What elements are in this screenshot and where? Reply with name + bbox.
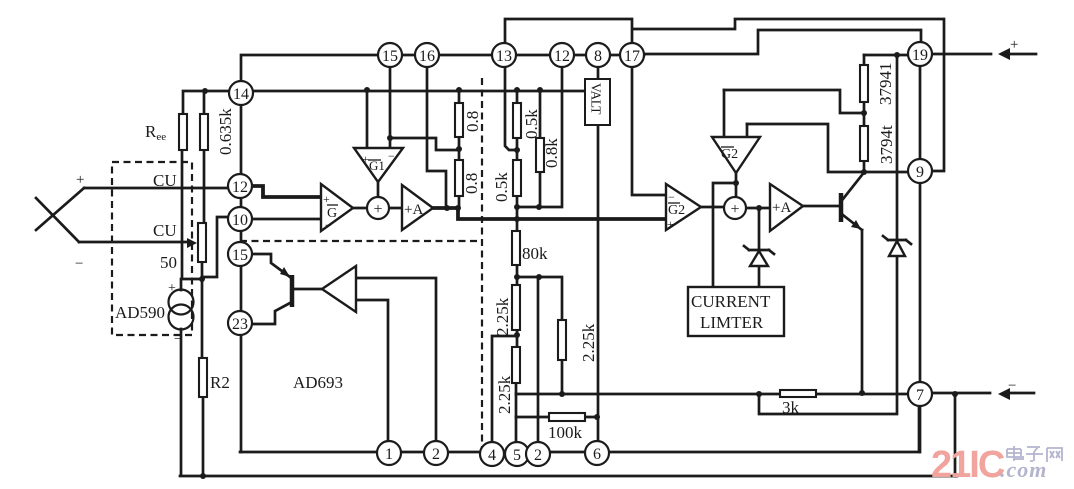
svg-text:12: 12 bbox=[232, 179, 248, 196]
svg-text:17: 17 bbox=[624, 48, 640, 65]
svg-text:−: − bbox=[668, 190, 675, 204]
svg-text:G2: G2 bbox=[721, 147, 738, 162]
svg-text:+: + bbox=[323, 192, 330, 206]
svg-text:9: 9 bbox=[916, 164, 924, 181]
svg-text:−: − bbox=[174, 332, 182, 347]
svg-text:+: + bbox=[362, 152, 369, 166]
svg-text:2.25k: 2.25k bbox=[493, 297, 512, 336]
svg-text:CU: CU bbox=[153, 171, 177, 190]
svg-text:−: − bbox=[75, 256, 83, 272]
svg-text:+A: +A bbox=[772, 200, 791, 216]
svg-text:0.8: 0.8 bbox=[462, 173, 481, 194]
svg-text:3794t: 3794t bbox=[877, 125, 896, 164]
svg-text:16: 16 bbox=[419, 48, 435, 65]
svg-text:+: + bbox=[1010, 37, 1018, 53]
svg-text:15: 15 bbox=[232, 247, 248, 264]
svg-text:VALT: VALT bbox=[589, 83, 604, 115]
svg-text:LIMTER: LIMTER bbox=[700, 313, 764, 332]
svg-text:0.8: 0.8 bbox=[463, 111, 482, 132]
svg-text:15: 15 bbox=[382, 48, 398, 65]
svg-text:3k: 3k bbox=[782, 398, 800, 417]
svg-text:8: 8 bbox=[594, 48, 602, 65]
svg-text:0.8k: 0.8k bbox=[542, 138, 561, 168]
svg-text:5: 5 bbox=[513, 447, 521, 464]
svg-text:+: + bbox=[373, 201, 382, 218]
svg-text:100k: 100k bbox=[548, 423, 583, 442]
svg-text:+: + bbox=[730, 201, 739, 218]
svg-text:13: 13 bbox=[496, 48, 512, 65]
svg-text:4: 4 bbox=[488, 447, 496, 464]
svg-text:1: 1 bbox=[385, 446, 393, 463]
svg-text:0.5k: 0.5k bbox=[492, 172, 511, 202]
svg-text:2.25k: 2.25k bbox=[495, 375, 514, 414]
svg-text:G2: G2 bbox=[668, 203, 685, 218]
svg-text:−: − bbox=[388, 149, 395, 163]
svg-text:7: 7 bbox=[916, 387, 924, 404]
svg-text:19: 19 bbox=[912, 47, 928, 64]
svg-text:−: − bbox=[1008, 378, 1016, 394]
svg-text:12: 12 bbox=[554, 48, 570, 65]
svg-text:+: + bbox=[667, 217, 674, 231]
svg-text:2: 2 bbox=[432, 446, 440, 463]
svg-text:2.25k: 2.25k bbox=[579, 323, 598, 362]
svg-text:0.635k: 0.635k bbox=[216, 108, 235, 155]
svg-text:10: 10 bbox=[232, 212, 248, 229]
svg-text:0.5k: 0.5k bbox=[522, 109, 541, 139]
svg-text:AD590: AD590 bbox=[115, 303, 165, 322]
svg-text:37941: 37941 bbox=[876, 63, 895, 106]
svg-text:+: + bbox=[168, 281, 176, 296]
svg-text:R2: R2 bbox=[210, 373, 230, 392]
svg-text:AD693: AD693 bbox=[293, 373, 343, 392]
svg-text:−: − bbox=[325, 218, 332, 232]
svg-text:21IC: 21IC bbox=[931, 444, 1005, 486]
svg-text:+: + bbox=[76, 172, 84, 188]
svg-text:80k: 80k bbox=[522, 244, 548, 263]
svg-text:23: 23 bbox=[232, 316, 248, 333]
svg-text:.com: .com bbox=[1000, 457, 1047, 482]
svg-text:50: 50 bbox=[160, 253, 177, 272]
svg-text:+A: +A bbox=[404, 202, 423, 218]
svg-text:CURRENT: CURRENT bbox=[691, 292, 771, 311]
svg-text:14: 14 bbox=[233, 86, 249, 103]
svg-text:CU: CU bbox=[153, 221, 177, 240]
svg-text:2: 2 bbox=[534, 447, 542, 464]
svg-text:6: 6 bbox=[593, 446, 601, 463]
